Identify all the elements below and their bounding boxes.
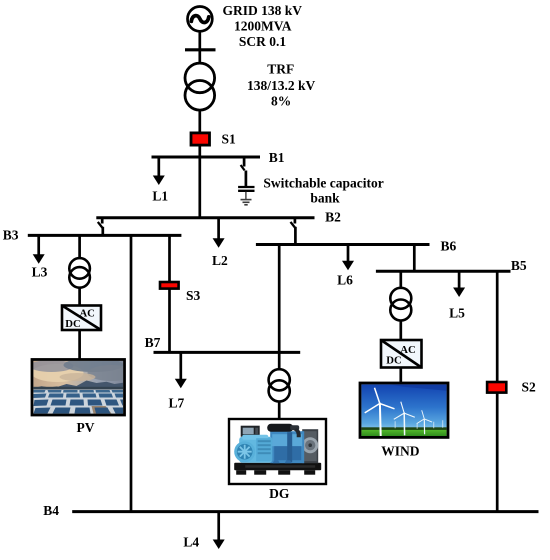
DG image (229, 419, 326, 484)
svg-text:B6: B6 (441, 239, 457, 254)
switch to capacitor (241, 157, 246, 186)
svg-text:L2: L2 (212, 253, 228, 268)
switch S2 (487, 382, 506, 393)
mid turbine (394, 402, 415, 436)
load L6 arrow (342, 245, 354, 271)
bus B3 (28, 234, 182, 237)
DG transformer (269, 369, 290, 401)
wire AC/DC to WIND image (399, 368, 402, 385)
bus B2 (96, 216, 314, 219)
svg-text:8%: 8% (271, 94, 291, 109)
svg-text:Switchable capacitor: Switchable capacitor (263, 176, 383, 191)
svg-text:B5: B5 (511, 258, 527, 273)
switch S1 (191, 133, 210, 145)
svg-text:S3: S3 (186, 288, 201, 303)
wire grid to tick (198, 32, 201, 64)
label GRID 138 kV / 1200MVA / SCR 0.1 (223, 3, 303, 49)
bus B5 (376, 270, 511, 273)
svg-text:AC: AC (79, 308, 94, 320)
svg-text:AC: AC (400, 344, 415, 356)
svg-text:1200MVA: 1200MVA (234, 18, 292, 33)
svg-text:DC: DC (386, 355, 401, 367)
wire AC/DC to PV panel (78, 331, 81, 360)
grid source G (188, 7, 213, 32)
wire B6 to B7 (DG branch) (278, 245, 281, 353)
capacitor plates (238, 187, 254, 191)
wire B3 to B4 (long vertical) (130, 235, 133, 511)
AC/DC converter (WIND) (381, 340, 422, 368)
svg-text:L4: L4 (183, 535, 199, 550)
svg-text:bank: bank (310, 191, 340, 206)
wire capacitor to ground (245, 192, 247, 200)
svg-text:138/13.2 kV: 138/13.2 kV (247, 78, 316, 93)
svg-text:TRF: TRF (267, 62, 294, 77)
skid base (234, 463, 321, 475)
wire B3 to S3 (168, 235, 171, 282)
transformer TRF (185, 63, 215, 110)
turbo pipe (267, 424, 293, 432)
svg-text:L6: L6 (337, 272, 353, 287)
svg-text:WIND: WIND (381, 444, 420, 459)
svg-text:B2: B2 (325, 209, 341, 224)
PV transformer (69, 258, 90, 288)
wire B7 to DG transformer (278, 352, 281, 369)
wire DG transformer to DG (278, 402, 281, 420)
AC/DC converter (PV) (62, 306, 101, 331)
bus B7 (154, 351, 301, 354)
distant turbines (395, 420, 443, 429)
load L7 arrow (175, 352, 187, 388)
small turbine (417, 410, 432, 434)
radiator right (302, 429, 318, 463)
wire B6 to B5 (413, 245, 416, 272)
wire transformer to AC/DC converter (78, 288, 81, 305)
svg-text:GRID 138 kV: GRID 138 kV (223, 3, 303, 18)
svg-text:L3: L3 (32, 264, 48, 279)
WIND image (360, 383, 448, 437)
load L4 arrow (213, 512, 225, 549)
svg-text:B1: B1 (269, 150, 285, 165)
svg-text:S1: S1 (222, 131, 237, 146)
tick bar (185, 48, 216, 51)
bus B6 (256, 243, 430, 246)
bus B4 (72, 510, 538, 513)
switch B2 to B3 (98, 218, 103, 236)
wire S1 to B1 (198, 146, 201, 158)
load L1 arrow (153, 157, 165, 185)
svg-text:L5: L5 (449, 306, 465, 321)
wire S3 to B7 (168, 289, 171, 352)
wire TRF to S1 (198, 111, 201, 133)
ground (241, 200, 252, 205)
engine mid (270, 431, 304, 463)
wire B1 to B2 (198, 157, 201, 218)
svg-text:S2: S2 (522, 380, 537, 395)
svg-text:L7: L7 (169, 396, 185, 411)
big turbine (365, 388, 395, 437)
wire S2 to B4 (496, 393, 499, 512)
svg-text:SCR 0.1: SCR 0.1 (239, 34, 287, 49)
svg-text:L1: L1 (152, 189, 168, 204)
svg-text:B4: B4 (43, 503, 59, 518)
load L5 arrow (453, 271, 465, 297)
load L2 arrow (213, 218, 225, 248)
alternator end bell (234, 441, 255, 462)
label Switchable capacitor bank (263, 176, 383, 206)
wire B5 to S2 (496, 271, 499, 382)
WIND transformer (390, 288, 411, 321)
switch B2 to B6 (291, 218, 296, 245)
svg-text:B3: B3 (3, 228, 19, 243)
wire B5 to WIND transformer (399, 271, 402, 288)
bus B1 (152, 156, 261, 159)
wire transformer to AC/DC (WIND) (399, 321, 402, 342)
control box (241, 426, 260, 437)
PV panel image (30, 358, 136, 415)
label TRF 138/13.2 kV 8% (247, 62, 316, 109)
feet under engine (273, 460, 280, 463)
wire B3 to PV transformer (78, 235, 81, 258)
svg-text:DC: DC (65, 318, 80, 330)
svg-text:PV: PV (77, 420, 95, 435)
svg-text:DG: DG (269, 486, 290, 501)
switch S3 (160, 282, 179, 289)
alternator body (239, 437, 272, 463)
svg-text:B7: B7 (145, 335, 161, 350)
load L3 arrow (33, 235, 45, 263)
